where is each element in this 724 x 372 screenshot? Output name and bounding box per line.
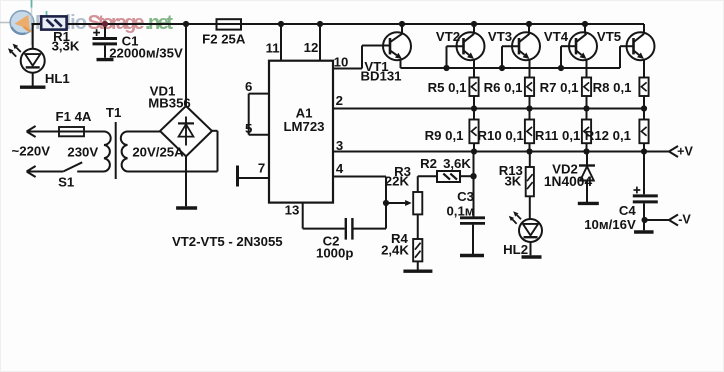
svg-text:0,1м: 0,1м	[446, 203, 474, 218]
svg-text:R11 0,1: R11 0,1	[535, 128, 580, 143]
svg-text:2,4K: 2,4K	[381, 242, 409, 257]
svg-text:2: 2	[336, 93, 343, 108]
svg-text:HL2: HL2	[503, 242, 528, 257]
svg-text:10м/16V: 10м/16V	[584, 217, 636, 232]
svg-text:4: 4	[336, 161, 344, 176]
svg-text:F1 4A: F1 4A	[56, 109, 92, 124]
svg-text:3,6K: 3,6K	[443, 156, 471, 171]
svg-text:VT2: VT2	[436, 29, 460, 44]
svg-text:S1: S1	[58, 175, 74, 190]
svg-text:VT4: VT4	[544, 29, 569, 44]
svg-text:R6 0,1: R6 0,1	[484, 80, 523, 95]
svg-text:R10 0,1: R10 0,1	[477, 128, 523, 143]
svg-text:VT2-VT5 - 2N3055: VT2-VT5 - 2N3055	[172, 234, 283, 249]
svg-text:3,3K: 3,3K	[52, 39, 80, 54]
svg-text:C4: C4	[619, 203, 637, 218]
svg-text:+V: +V	[677, 144, 693, 158]
svg-text:R5 0,1: R5 0,1	[428, 80, 467, 95]
svg-text:C3: C3	[457, 189, 474, 204]
svg-text:11: 11	[266, 40, 280, 55]
svg-text:R9 0,1: R9 0,1	[425, 128, 464, 143]
svg-text:3K: 3K	[504, 174, 521, 189]
svg-text:R7 0,1: R7 0,1	[540, 80, 579, 95]
svg-text:~220V: ~220V	[12, 143, 51, 158]
svg-text:230V: 230V	[67, 144, 98, 159]
svg-text:1N4004: 1N4004	[544, 174, 593, 189]
svg-text:3: 3	[336, 138, 343, 153]
svg-text:22K: 22K	[385, 174, 410, 189]
svg-text:VT3: VT3	[488, 29, 512, 44]
svg-text:10: 10	[334, 55, 349, 70]
svg-text:R12 0,1: R12 0,1	[585, 128, 631, 143]
svg-text:BD131: BD131	[360, 69, 401, 84]
svg-text:13: 13	[285, 203, 300, 218]
svg-text:5: 5	[245, 121, 252, 136]
svg-text:HL1: HL1	[45, 71, 70, 86]
svg-text:R2: R2	[420, 156, 437, 171]
svg-text:T1: T1	[106, 105, 121, 120]
svg-text:1000p: 1000p	[316, 246, 353, 261]
svg-text:-V: -V	[678, 213, 691, 227]
svg-text:7: 7	[258, 161, 265, 176]
svg-text:R8 0,1: R8 0,1	[593, 80, 632, 95]
svg-text:22000м/35V: 22000м/35V	[109, 45, 183, 60]
svg-text:VT5: VT5	[597, 29, 621, 44]
svg-text:20V/25A: 20V/25A	[132, 145, 184, 160]
svg-text:6: 6	[245, 79, 252, 94]
svg-text:F2 25A: F2 25A	[202, 31, 246, 46]
svg-text:MB356: MB356	[148, 96, 191, 111]
svg-text:LM723: LM723	[283, 119, 324, 134]
svg-text:12: 12	[304, 40, 319, 55]
